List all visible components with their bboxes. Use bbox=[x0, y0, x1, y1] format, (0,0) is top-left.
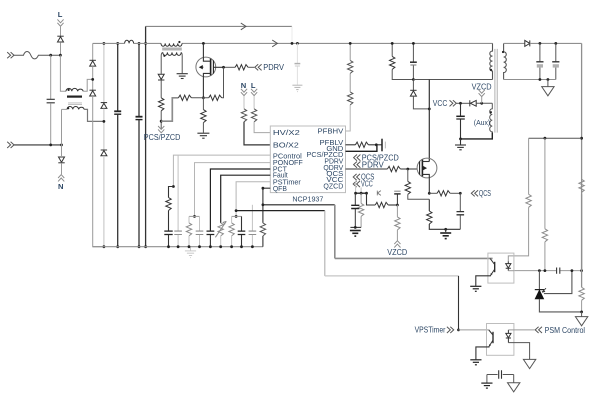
resistor R-pfbhv upper bbox=[348, 60, 353, 73]
QR MOSFET source internal bbox=[422, 174, 429, 193]
svg-text:QFB: QFB bbox=[273, 184, 287, 193]
wire PSTimer pin bbox=[236, 182, 270, 217]
junction dot L node bbox=[59, 54, 62, 57]
junction dot rail fb bbox=[580, 137, 583, 140]
junction dot qcs ground bbox=[444, 228, 447, 231]
ground symbol vcc local bbox=[350, 231, 361, 237]
junction dot pcontrol rail bbox=[167, 245, 170, 248]
secondary gnd triangle divider bbox=[581, 312, 583, 317]
opto2 transistor bar bbox=[492, 332, 494, 343]
QR source sense resistor R-sense2 bbox=[428, 199, 430, 211]
output rail right bbox=[581, 43, 583, 270]
wire output rail top bbox=[530, 42, 582, 44]
ref riser bbox=[544, 271, 572, 294]
optocoupler U3 box bbox=[487, 324, 514, 356]
junction dot rled node bbox=[544, 269, 547, 272]
net flag PCS/PZCD chevron bbox=[158, 126, 164, 133]
wire r-qzcd to node bbox=[388, 204, 397, 206]
phase dot aux winding bbox=[490, 111, 492, 113]
QR MOSFET channel bar bbox=[421, 160, 423, 177]
bulk cap C2 lead top bbox=[138, 43, 140, 116]
junction dot bus riser rail bbox=[144, 245, 147, 248]
clamp diode D-clamp (cathode up) bbox=[412, 80, 414, 91]
stub rail to gray ground bbox=[190, 247, 192, 251]
wire N resistor to BO/X2 bbox=[244, 122, 270, 145]
capacitor C-qfb branch bbox=[251, 205, 253, 231]
wire PONOFF bracket bbox=[189, 215, 200, 217]
wire vzcd chevron stub bbox=[481, 97, 483, 103]
capacitor C-pcontrol bbox=[164, 230, 172, 232]
junction dot bridge AC1 bbox=[91, 78, 94, 81]
bridge column1 wire bottom to rail bbox=[93, 96, 104, 247]
svg-text:VZCD: VZCD bbox=[387, 248, 407, 257]
resistor R-sense PFC bbox=[201, 110, 206, 123]
svg-text:VCC: VCC bbox=[361, 180, 373, 189]
junction dot bridge AC2 bbox=[103, 120, 106, 123]
junction dot fb mid bbox=[544, 137, 547, 140]
wire QFB net to opto1 bbox=[335, 257, 493, 259]
svg-text:VCC: VCC bbox=[433, 99, 448, 108]
junction dot PSTimer node bbox=[235, 209, 238, 212]
opto2 emitter wire ground bbox=[476, 347, 490, 360]
wire L flag to resistor bbox=[253, 96, 255, 109]
wire L resistor to HV/X2 bbox=[254, 122, 270, 133]
net flag PSM chevron bbox=[535, 327, 542, 333]
junction dot C2 rail bbox=[138, 245, 141, 248]
svg-text:BO/X2: BO/X2 bbox=[273, 141, 299, 150]
net flag QCS at IC chevron bbox=[353, 174, 360, 180]
wire PSTimer net down bbox=[458, 276, 460, 330]
clamp resistor R-clamp bbox=[391, 43, 393, 56]
opto1 emitter diagonal bbox=[490, 269, 494, 275]
wire PSTimer long bbox=[236, 210, 325, 212]
choke core bar bbox=[67, 95, 82, 97]
resistor R-qcs bbox=[437, 191, 450, 196]
phase dot secondary bbox=[502, 51, 504, 53]
diode D-N (cathode down) bbox=[58, 157, 64, 163]
PFC aux winding bbox=[163, 52, 181, 55]
ground symbol PFC source bbox=[197, 133, 209, 138]
wire gate to PDRV bbox=[224, 66, 236, 68]
junction dot vcc net c bbox=[365, 192, 368, 195]
phase dot PFC aux bbox=[163, 55, 165, 57]
wire PFBLV pin bbox=[346, 144, 356, 146]
junction dot N node bbox=[60, 144, 63, 147]
PFC MOSFET drain lead bbox=[203, 43, 210, 61]
net flag VCC chevron right bbox=[450, 100, 457, 106]
net flag N sense chevron bbox=[241, 89, 247, 96]
junction dot divider gnd bbox=[580, 311, 583, 314]
junction dot ponoff-c rail bbox=[198, 245, 201, 248]
junction dot PFC drain top bbox=[202, 42, 205, 45]
wire secondary return bbox=[504, 79, 556, 81]
junction dot vcc node bbox=[459, 102, 462, 105]
output cap C-out1 bbox=[539, 43, 541, 61]
wire R-qfb to rail bbox=[262, 236, 264, 247]
resistor R-led feed bbox=[528, 138, 530, 194]
ground rail bottom bbox=[93, 246, 263, 248]
opto1 LED bbox=[506, 261, 511, 270]
TL431 anode wire bbox=[539, 299, 581, 312]
wire fb top bbox=[529, 137, 582, 139]
wire QFB net riser bbox=[334, 205, 336, 259]
svg-text:N: N bbox=[241, 81, 246, 90]
svg-text:PDRV: PDRV bbox=[263, 63, 285, 72]
junction dot out cap2 bbox=[554, 42, 557, 45]
svg-text:L: L bbox=[251, 81, 256, 90]
wire between pfbhv resistors bbox=[349, 73, 351, 92]
bridge diode D3 bbox=[101, 103, 107, 109]
junction dot return gnd bbox=[547, 78, 550, 81]
svg-text:L: L bbox=[58, 10, 63, 19]
resistor R-divider top bbox=[579, 179, 584, 192]
junction dot clamp top bbox=[391, 42, 394, 45]
wire choke w2 left to N node bbox=[62, 109, 68, 144]
wire C-pcontrol to rail bbox=[168, 235, 170, 247]
opto2 collector diagonal bbox=[489, 330, 493, 335]
wire source to QCS filter bbox=[429, 192, 437, 194]
junction dot C2 top bbox=[138, 42, 141, 45]
wire aux left down bbox=[161, 52, 163, 74]
resistor R-L sense bbox=[251, 109, 256, 122]
resistor R-pcontrol bbox=[166, 198, 171, 211]
wire diode to aux top bbox=[476, 102, 492, 104]
junction dot QR gate bbox=[406, 168, 409, 171]
resistor R-qfb bbox=[260, 223, 265, 236]
wire L flag to diode bbox=[60, 27, 62, 37]
opto1 transistor bar bbox=[494, 262, 496, 272]
resistor R-pdrv bbox=[235, 65, 248, 70]
junction dot QR source bbox=[428, 192, 431, 195]
junction dot ref bbox=[571, 269, 574, 272]
wire primary bottom bbox=[413, 79, 492, 81]
opto2 emitter diagonal bbox=[489, 340, 493, 347]
net flag PDRV chevron bbox=[255, 64, 262, 70]
DC bus riser left bbox=[145, 26, 147, 246]
flyback secondary bbox=[504, 43, 507, 79]
junction dot pcs node bbox=[160, 120, 163, 123]
bulk cap C1 lead top bbox=[117, 43, 119, 111]
capacitor C-ponoff bbox=[199, 216, 201, 230]
svg-text:QZCD: QZCD bbox=[323, 181, 343, 190]
main bus wire y43 bbox=[93, 42, 493, 44]
X2 capacitor C-X2 lead bottom bbox=[50, 103, 52, 145]
junction dot return cap1 bbox=[539, 78, 542, 81]
wire VCC flag down bbox=[360, 187, 362, 193]
junction dot vcc net a bbox=[354, 192, 357, 195]
X2 capacitor C-X2 lead top bbox=[50, 55, 52, 99]
svg-text:PFBHV: PFBHV bbox=[318, 127, 344, 136]
wire aux diode to resistor bbox=[160, 80, 162, 98]
wire gate node down bbox=[222, 67, 224, 98]
wire pfbhv top to bus bbox=[349, 43, 351, 60]
diode D-L inrush (cathode up) bbox=[57, 36, 63, 42]
QR MOSFET Q2 body circle bbox=[417, 158, 437, 178]
junction dot bus cap column bbox=[296, 42, 299, 45]
PFC MOSFET channel bar bbox=[210, 59, 212, 76]
wire PSM control bbox=[508, 329, 534, 331]
diode marker K on qzcd bbox=[377, 191, 381, 196]
wire AC neutral input bbox=[14, 144, 62, 146]
wire secondary top bbox=[504, 42, 525, 44]
svg-text:VPSTimer: VPSTimer bbox=[415, 326, 446, 335]
ground symbol opto1 bbox=[470, 286, 481, 291]
junction dot pfbhv bus bbox=[349, 42, 352, 45]
wire source to sense resistor bbox=[202, 98, 204, 110]
wire PControl node jog bbox=[169, 187, 174, 198]
QR MOSFET Q2 drain wire bbox=[428, 80, 430, 162]
input terminal chevron AC line bbox=[7, 52, 14, 58]
bridge diode D1 bbox=[90, 60, 96, 66]
wire sense resistor to ground bbox=[202, 123, 204, 133]
junction dot gate node bbox=[222, 66, 225, 69]
wire PSTimer net riser bbox=[324, 211, 326, 276]
wire resistor to pcs node bbox=[160, 111, 162, 129]
resistor R-divider bottom bbox=[581, 194, 583, 287]
phase dot PFC primary bbox=[178, 41, 180, 43]
resistor R-pfblv bbox=[355, 142, 368, 147]
ground symbol opto2 bbox=[470, 360, 481, 365]
Y capacitor bbox=[499, 370, 502, 378]
wire diode to L node bbox=[60, 42, 62, 55]
wire QCS flag down bbox=[355, 180, 357, 193]
choke core lines gray bbox=[68, 103, 82, 105]
Y-cap right ground triangle bbox=[513, 375, 515, 383]
resistor R-pstimer bbox=[231, 216, 233, 223]
wire R-qdrv to gate bbox=[400, 168, 417, 170]
wire PONOFF pin bbox=[195, 163, 271, 217]
junction dot vcc gnd bbox=[354, 226, 357, 229]
junction dot rail 270 bbox=[580, 269, 583, 272]
opto1 LED cathode out bbox=[508, 270, 514, 272]
resistor R-divider left bbox=[178, 95, 191, 100]
resistor R-pcs upper bbox=[159, 98, 164, 111]
thermistor NTC fault bbox=[218, 223, 223, 236]
common-mode choke winding 2 bbox=[67, 107, 84, 110]
svg-text:QCS: QCS bbox=[479, 189, 491, 198]
junction dot vzcd tap bbox=[480, 102, 483, 105]
bridge column2 wire bottom to rail bbox=[103, 156, 105, 247]
junction dot bus riser bbox=[144, 42, 147, 45]
junction dot tl431 cathode bbox=[538, 269, 541, 272]
ground symbol QCS bbox=[440, 233, 451, 239]
capacitor C-vcc local bbox=[354, 193, 356, 205]
wire D1 to AC1 node bbox=[92, 66, 94, 90]
wire vpstimer to opto2 bbox=[459, 329, 490, 331]
PFC inductor core bar bbox=[162, 48, 182, 51]
ground symbol PFC aux bbox=[177, 74, 188, 79]
wire pcs node to gate divider bbox=[161, 98, 178, 121]
net flag L chevron bbox=[57, 19, 63, 26]
PFC output top wire bbox=[146, 25, 292, 27]
junction dot C1 top bbox=[116, 42, 119, 45]
svg-text:PSM Control: PSM Control bbox=[545, 326, 586, 335]
phase dot choke w2 bbox=[67, 107, 69, 109]
junction dot vcc net b bbox=[360, 192, 363, 195]
QR MOSFET arrow bbox=[422, 167, 426, 170]
svg-text:HV/X2: HV/X2 bbox=[273, 128, 300, 137]
compensation capacitor C-comp bbox=[557, 268, 560, 274]
capacitor C-qcs bbox=[459, 193, 461, 211]
wire GND pin bbox=[346, 146, 377, 152]
ground symbol VCC bbox=[460, 139, 462, 145]
bridge diode D2 bbox=[90, 90, 96, 96]
secondary ground triangle bbox=[547, 80, 549, 87]
junction dot pstimer-r rail bbox=[230, 245, 233, 248]
wire vcc net bar bbox=[356, 192, 367, 194]
svg-text:(Aux): (Aux) bbox=[474, 118, 490, 127]
capacitor C-pfblv bbox=[381, 139, 383, 152]
wire aux right to ground bbox=[181, 52, 182, 73]
junction dot out cap1 bbox=[539, 42, 542, 45]
capacitor C-vcc bbox=[460, 103, 462, 116]
net flag QCS chevron bbox=[471, 190, 478, 196]
wire r-qcs to node bbox=[450, 192, 460, 194]
PFC MOSFET arrow bbox=[200, 66, 204, 69]
net flag VCC at IC chevron bbox=[353, 181, 360, 187]
PFC MOSFET source lead bbox=[203, 73, 210, 97]
junction dot fault rail bbox=[219, 245, 222, 248]
wire D3 to AC2 node bbox=[103, 108, 105, 150]
diode D-aux (cathode down) bbox=[158, 74, 164, 80]
wire N flag to resistor bbox=[243, 96, 245, 109]
common-mode choke winding 1 bbox=[66, 88, 83, 91]
junction dot source node bbox=[202, 96, 205, 99]
junction dot vpstimer bbox=[457, 329, 460, 332]
net flag N chevron bbox=[58, 175, 64, 182]
arrowhead on main bus bbox=[272, 40, 277, 47]
wire R-pcontrol to cap bbox=[168, 211, 170, 231]
opto2 LED cathode to gnd bbox=[508, 343, 529, 360]
junction dot pcontrol2 rail bbox=[177, 245, 180, 248]
Y-cap left ground bbox=[486, 375, 488, 383]
junction dot qzcd node bbox=[396, 204, 399, 207]
output diode D-out bbox=[525, 40, 530, 46]
net flag PDRV at IC chevron bbox=[354, 162, 361, 168]
wire vcc local ground bar bbox=[350, 226, 361, 228]
capacitor C-bus small column bbox=[296, 43, 298, 63]
svg-text:NCP1937: NCP1937 bbox=[292, 194, 323, 203]
junction dot pfblv bbox=[375, 143, 378, 146]
ground symbol below rail bbox=[185, 251, 196, 258]
resistor R-qdrv bbox=[387, 166, 400, 171]
bridge column 2 wire top bbox=[103, 43, 105, 102]
resistor R-gate lower bbox=[209, 95, 222, 100]
bulk cap C2 bbox=[136, 116, 143, 118]
QR MOSFET drain internal bbox=[422, 161, 429, 163]
PFC MOSFET gate bar bbox=[212, 60, 214, 73]
wire choke w2 right to bridge AC2 bbox=[84, 109, 104, 121]
opto2 LED bbox=[506, 330, 511, 343]
junction dot PSTimer lower bbox=[235, 215, 238, 218]
resistor R-fb upper bbox=[544, 138, 546, 229]
net flag VPSTimer chevron bbox=[447, 327, 454, 333]
PFC boost inductor primary bbox=[161, 43, 182, 46]
wire PSTimer net across bbox=[325, 275, 459, 277]
junction dot QFB lower bbox=[262, 203, 265, 206]
flyback transformer T1 primary bbox=[490, 43, 493, 79]
junction dot aux gnd bbox=[459, 138, 462, 141]
resistor R-ponoff bbox=[188, 216, 190, 223]
resistor R-vzcd lower bbox=[396, 205, 398, 217]
junction dot X2/neutral bbox=[49, 144, 52, 147]
wire choke w1 right to bridge AC1 bbox=[83, 79, 93, 91]
wire diode to N flag bbox=[61, 163, 63, 175]
Y-cap bridge wires bbox=[487, 374, 514, 376]
X2 capacitor C-X2 bbox=[47, 99, 55, 103]
junction dot choke col2 top bbox=[103, 42, 106, 45]
phase dot choke w1 bbox=[68, 89, 70, 91]
ground symbol bus cap bbox=[292, 85, 302, 91]
wire resistor chain left bbox=[177, 97, 179, 99]
net flag VZCD chevron top bbox=[479, 90, 485, 97]
capacitor C-pcontrol2 branch bbox=[177, 155, 179, 231]
junction dot clamp cap top bbox=[412, 42, 415, 45]
op-amp U1 NCP1937 controller box bbox=[270, 126, 345, 193]
capacitor C-pstimer bbox=[241, 216, 243, 230]
optocoupler U2 box bbox=[488, 253, 514, 283]
wire Fault pin bbox=[221, 175, 271, 223]
junction dot fuse/X2 cap bbox=[49, 54, 52, 57]
net flag PCS/PZCD at IC chevron bbox=[354, 155, 361, 161]
output cap C-out2 bbox=[555, 43, 557, 61]
junction dot pct rail bbox=[209, 245, 212, 248]
net flag VZCD chevron bottom bbox=[394, 241, 400, 248]
capacitor C-pct bbox=[207, 231, 215, 234]
gate pulldown R-qgate bbox=[407, 169, 409, 181]
wire L node down to choke w1 bbox=[60, 55, 66, 91]
wire pfblv to cap bbox=[368, 144, 382, 146]
resistor R-N sense bbox=[241, 109, 246, 122]
aux winding flyback bbox=[490, 103, 493, 132]
junction dot column2 rail bbox=[103, 245, 106, 248]
junction dot qfb-c rail bbox=[251, 245, 254, 248]
bulk cap C2 lead bottom bbox=[138, 120, 140, 247]
junction dot PONOFF node bbox=[193, 215, 196, 218]
junction dot riser bus bbox=[291, 42, 294, 45]
QR MOSFET gate bar bbox=[419, 161, 421, 174]
opto1 emitter wire to ground bbox=[476, 276, 491, 286]
svg-text:PCS/PZCD: PCS/PZCD bbox=[144, 133, 181, 142]
wire QZCD net bbox=[367, 193, 376, 205]
junction dot C1 rail bbox=[116, 245, 119, 248]
resistor R-vcc local bbox=[360, 193, 362, 203]
input terminal chevron AC neutral bbox=[7, 142, 14, 148]
bulk cap C1 bbox=[114, 110, 121, 112]
wire PSTimer bracket bbox=[232, 215, 242, 217]
wire QFB pin bbox=[263, 188, 270, 223]
net flag L sense chevron bbox=[251, 89, 257, 96]
svg-text:VZCD: VZCD bbox=[472, 82, 492, 91]
diode D-vcc (cathode left) bbox=[470, 100, 476, 106]
resistor R-qzcd upper bbox=[375, 202, 388, 207]
wire y270 fb bbox=[514, 270, 582, 272]
bridge diode D4 bbox=[101, 150, 107, 156]
wire QDRV pin bbox=[346, 168, 388, 170]
wire PControl pin bbox=[173, 155, 270, 186]
resistor R-pfbhv lower bbox=[348, 92, 353, 105]
filter inductor L2 bbox=[125, 40, 134, 43]
PFC MOSFET gate lead bbox=[213, 66, 223, 68]
svg-text:PDRV: PDRV bbox=[362, 160, 385, 169]
fuse F1 bbox=[14, 52, 60, 59]
wire aux bottom to ground bbox=[461, 132, 493, 139]
wire PCT pin bbox=[210, 169, 270, 231]
junction dot QFB bbox=[262, 187, 265, 190]
junction dot pstimer-c rail bbox=[240, 245, 243, 248]
shunt regulator TL431 bbox=[538, 271, 540, 290]
phase dot primary bbox=[490, 69, 492, 71]
